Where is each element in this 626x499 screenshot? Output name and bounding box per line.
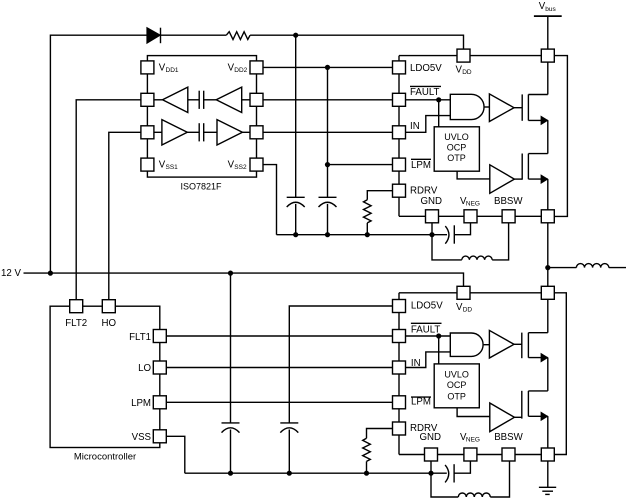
wire rail Q3 source to Q4 drain (547, 358, 549, 391)
capacitor VNEG charge-pump cap (top driver) (445, 225, 454, 243)
pin micro HO (102, 300, 115, 313)
pin ISO VDD1 (141, 61, 154, 74)
pin U2 BBSW (502, 448, 515, 461)
wire ISO channel1 lead to right amp (204, 99, 217, 101)
wire ISO channel2 lead to right amp (204, 131, 217, 133)
wire AND output (bottom) (484, 344, 490, 346)
wire buffer to gate of Q3 (514, 343, 522, 345)
driver U1 top gate driver box (399, 56, 548, 217)
wire VSS to bottom ground rail (160, 436, 185, 473)
wire ISO channel1 mid lead (188, 99, 199, 101)
pin micro FLT2 (70, 300, 83, 313)
logic UVLO OCP OTP block (top driver) (434, 127, 479, 171)
pin U1 GND (426, 210, 439, 223)
pin U2 source bottom-right (541, 448, 554, 461)
svg-text:BBSW: BBSW (494, 196, 523, 207)
wire ISO channel1 right lead (242, 99, 250, 101)
pin ISO channel1 right (250, 93, 263, 106)
transistor Q3 high-side FET (bottom driver) (522, 333, 548, 362)
wire 12V drop to bypass cap C3 (230, 273, 232, 423)
wire buffer to gate of Q1 (514, 107, 522, 109)
capacitor C2 LDO5V bypass (319, 197, 337, 207)
node junction C3 at bottom rail (228, 471, 233, 476)
wire row LO to bottom driver IN (160, 367, 399, 369)
gate AND gate U1 (450, 94, 484, 119)
svg-text:SS1: SS1 (166, 164, 179, 171)
node junction C1 at mid rail (293, 232, 298, 237)
wire VSS2 down to mid rail (257, 165, 277, 235)
pin U2 FAULT (393, 330, 406, 343)
buffer ISO channel2 right amp (points right) (217, 120, 242, 145)
capacitor VNEG charge-pump cap (bottom driver) (445, 464, 454, 482)
wire FAULT pin to AND gate (bottom) (399, 335, 450, 337)
wire IN pin route to AND gate (399, 116, 450, 133)
wire buffer to gate of Q2 (514, 178, 522, 180)
wire GND pin to bottom rail (bottom driver) (430, 455, 432, 474)
wire GND pin to mid rail (431, 216, 433, 234)
wire inductor to right edge (609, 267, 626, 269)
node Vbus label (539, 1, 557, 13)
ground power ground symbol (539, 455, 556, 495)
pin U1 BBSW (502, 210, 515, 223)
pin U1 VNEG (464, 210, 477, 223)
pin micro LPM (153, 396, 166, 409)
svg-text:12 V: 12 V (1, 268, 21, 279)
svg-text:SS2: SS2 (234, 164, 247, 171)
svg-text:bus: bus (545, 6, 556, 13)
wire row LPM to bottom driver LPM (160, 401, 399, 403)
wire UVLO block to low-side buffer (457, 171, 490, 179)
pin U2 IN (393, 361, 406, 374)
wire diode to resistor (161, 34, 227, 36)
node junction C4 at bottom rail (287, 471, 292, 476)
capacitor ISO channel2 isolation cap (199, 123, 204, 141)
wire HO riser to ISO channel2 (109, 132, 148, 306)
node junction LPM tie (325, 162, 330, 167)
node supply junction at bypass cap (293, 33, 298, 38)
wire Vbus to top-right pin of top driver (547, 16, 549, 56)
wire row FAULT (ISO to driver) (257, 99, 400, 101)
capacitor ISO channel1 isolation cap (199, 91, 204, 109)
wire UVLO output riser (438, 100, 440, 127)
node junction RDRV resistor at mid rail (365, 232, 370, 237)
pin U2 drain top-right (541, 286, 554, 299)
wire switch node vertical (547, 216, 549, 292)
wire C1 to mid rail (295, 204, 297, 235)
node VDD2 label (228, 62, 248, 74)
wire C3 to bottom ground rail (230, 430, 232, 474)
svg-text:FAULT: FAULT (410, 87, 440, 98)
transistor Q1 high-side FET (top driver) (522, 94, 548, 124)
node VSS1 label (159, 160, 178, 172)
logic UVLO OCP OTP block (bottom driver) (434, 364, 479, 408)
node junction RDRV resistor at bottom rail (364, 471, 369, 476)
wire resistor to bottom rail (366, 461, 368, 473)
transistor Q4 low-side FET (bottom driver) (522, 391, 548, 420)
node U2 FAULT label with overline (411, 323, 442, 335)
wire FAULT pin to AND gate (399, 99, 450, 101)
node U2 LPM label with overline (411, 397, 431, 408)
svg-text:HO: HO (102, 318, 117, 329)
pin U2 RDRV (393, 422, 406, 435)
node junction LDO5V rail (325, 65, 330, 70)
node VDD1 label (159, 62, 179, 74)
svg-text:DD: DD (462, 69, 472, 76)
wire bottom ground rail (185, 472, 447, 474)
buffer ISO channel1 right amp (points left) (216, 87, 242, 112)
buffer low-side gate buffer (bottom driver) (490, 403, 515, 432)
svg-text:LPM: LPM (411, 397, 431, 408)
pin ISO channel2 right (250, 126, 263, 139)
wire ISO channel2 mid lead (187, 131, 199, 133)
wire buffer to gate of Q4 (514, 416, 521, 418)
wire resistor to mid rail (366, 223, 368, 235)
svg-text:FAULT: FAULT (411, 324, 441, 335)
wire ISO channel1 lead (154, 99, 163, 101)
node U2 VNEG label (460, 432, 480, 444)
wire rail Q2 source to bottom-right pin (547, 179, 549, 216)
inductor VNEG charge-pump inductor (bottom driver) (458, 493, 490, 497)
wire switch node to output inductor (548, 267, 577, 269)
microcontroller box (50, 306, 160, 447)
svg-text:DD2: DD2 (234, 67, 247, 74)
pin ISO VSS2 (250, 158, 263, 171)
wire drain rail from top-right pin to Q3 (547, 293, 549, 333)
driver U2 bottom gate driver box (399, 293, 548, 455)
wire cap to VNEG pin (bottom driver) (454, 455, 470, 474)
svg-text:IN: IN (411, 358, 421, 369)
node U1 LPM label with overline (411, 159, 431, 171)
wire supply drop to bypass cap C1 (295, 35, 297, 197)
wire LDO5V of bottom driver to C4 (289, 306, 399, 423)
svg-text:RDRV: RDRV (410, 185, 438, 196)
transistor Q2 low-side FET (top driver) (522, 154, 548, 183)
pin U1 VDD (457, 49, 470, 62)
wire LDO5V vertical to LPM and cap C2 (327, 67, 329, 197)
pin micro VSS (153, 430, 166, 443)
node VSS2 label (228, 160, 247, 172)
capacitor C4 LDO5V bypass (bottom) (280, 423, 298, 433)
node 12V feed junction (48, 271, 53, 276)
capacitor C3 12V bypass (bottom) (222, 423, 240, 433)
svg-text:FLT1: FLT1 (129, 332, 151, 343)
wire 12V riser to top supply wire (50, 35, 147, 273)
pin U1 drain top-right (541, 49, 554, 62)
pin U2 VNEG (464, 448, 477, 461)
svg-text:LDO5V: LDO5V (411, 301, 443, 312)
svg-text:VSS: VSS (132, 432, 152, 443)
wire UVLO block to low-side buffer (bottom) (457, 408, 490, 417)
buffer high-side gate buffer (top driver) (489, 94, 514, 122)
svg-text:UVLO: UVLO (444, 369, 469, 379)
node junction FAULT / UVLO output (436, 97, 441, 102)
wire inductor to BBSW pin (492, 216, 508, 260)
svg-text:DD1: DD1 (166, 67, 179, 74)
node U1 VNEG label (460, 196, 480, 208)
svg-text:LO: LO (138, 363, 151, 374)
wire C2 to mid rail (327, 204, 329, 235)
wire outer right link of top driver (548, 56, 568, 217)
pin U1 LPM (393, 158, 406, 171)
wire row LPM tie to LDO5V (328, 164, 400, 166)
svg-text:LDO5V: LDO5V (410, 63, 442, 74)
wire 12V input rail (24, 273, 464, 293)
svg-text:FLT2: FLT2 (65, 318, 87, 329)
wire FLT2 riser to ISO channel1 (76, 100, 147, 306)
node U1 FAULT label with overline (410, 86, 441, 98)
wire inductor to BBSW pin (bottom driver) (490, 455, 509, 498)
pin U2 VDD (457, 286, 470, 299)
node junction GND of top driver at mid rail (429, 232, 434, 237)
node junction GND of bottom driver at bottom rail (428, 471, 433, 476)
svg-text:OTP: OTP (447, 391, 466, 401)
pin U2 LDO5V (393, 300, 406, 313)
diode blocking diode (147, 28, 160, 44)
svg-text:IN: IN (410, 121, 420, 132)
buffer ISO channel2 left amp (points right) (162, 120, 187, 145)
wire outer right link of bottom driver (548, 293, 567, 455)
wire row VDD2 to LDO5V (257, 66, 400, 68)
wire UVLO output riser (bottom) (438, 336, 440, 364)
svg-text:OCP: OCP (447, 380, 467, 390)
capacitor C1 supply bypass (287, 197, 305, 207)
resistor series supply resistor (226, 32, 250, 40)
wire drain rail from top-right pin to Q1 (547, 56, 549, 95)
pin micro FLT1 (153, 330, 166, 343)
wire loop GND to inductor (top driver) (432, 235, 462, 260)
pin U1 IN (393, 126, 406, 139)
gate AND gate U2 (450, 333, 483, 356)
node U1 VDD label (456, 64, 472, 76)
pin ISO VSS1 (141, 158, 154, 171)
wire rail Q4 source to bottom-right pin (547, 416, 549, 454)
buffer low-side gate buffer (top driver) (490, 165, 515, 194)
pin U1 FAULT (393, 93, 406, 106)
wire resistor to VDD pin of top driver (250, 35, 463, 55)
wire ISO channel2 lead (154, 131, 162, 133)
svg-text:UVLO: UVLO (444, 132, 469, 142)
buffer high-side gate buffer (bottom driver) (489, 330, 514, 358)
pin micro LO (153, 361, 166, 374)
svg-text:OCP: OCP (447, 142, 467, 152)
inductor output filter inductor (576, 264, 608, 268)
node switch node junction (545, 265, 550, 270)
power Vbus bar (534, 15, 562, 17)
svg-text:LPM: LPM (411, 160, 431, 171)
svg-text:BBSW: BBSW (494, 432, 523, 443)
wire IN pin route to AND gate (bottom) (399, 352, 450, 368)
pin U2 LPM (393, 396, 406, 409)
node junction C2 at mid rail (325, 232, 330, 237)
wire RDRV to set resistor (bottom driver) (367, 429, 400, 439)
wire rail Q1 source to Q2 drain (547, 120, 549, 153)
svg-text:GND: GND (421, 196, 443, 207)
wire AND output (484, 106, 489, 108)
pin U1 LDO5V (393, 61, 406, 74)
buffer ISO channel1 left amp (points left) (163, 87, 188, 112)
pin ISO channel1 left (141, 93, 154, 106)
inductor VNEG charge-pump inductor (top driver) (462, 256, 492, 260)
svg-text:DD: DD (463, 307, 473, 314)
svg-text:LPM: LPM (131, 398, 151, 409)
wire row IN (ISO to driver) (257, 131, 400, 133)
svg-text:ISO7821F: ISO7821F (180, 181, 222, 191)
wire loop GND to inductor (bottom driver) (431, 473, 458, 497)
wire ISO channel2 right lead (242, 131, 250, 133)
resistor RDRV set resistor (top driver) (364, 200, 372, 223)
pin U2 GND (425, 448, 438, 461)
svg-text:NEG: NEG (466, 201, 480, 208)
pin ISO VDD2 (250, 61, 263, 74)
svg-text:OTP: OTP (447, 153, 466, 163)
isolator ISO7821F box (147, 56, 256, 178)
svg-text:NEG: NEG (466, 437, 480, 444)
resistor RDRV set resistor (bottom driver) (363, 438, 371, 461)
node U2 VDD label (456, 302, 472, 314)
svg-text:GND: GND (420, 432, 442, 443)
wire row FLT1 to bottom driver FAULT (160, 335, 399, 337)
node 12V rail junction at bottom bypass (228, 271, 233, 276)
wire C4 to bottom ground rail (288, 430, 290, 474)
wire RDRV to set resistor (367, 191, 399, 200)
pin ISO channel2 left (141, 126, 154, 139)
wire cap to VNEG pin (454, 216, 470, 234)
pin U1 RDRV (393, 184, 406, 197)
pin U1 source bottom-right (541, 210, 554, 223)
wire mid ground rail (277, 234, 448, 236)
node junction FAULT / UVLO output (bottom) (436, 333, 441, 338)
svg-text:Microcontroller: Microcontroller (74, 451, 136, 462)
